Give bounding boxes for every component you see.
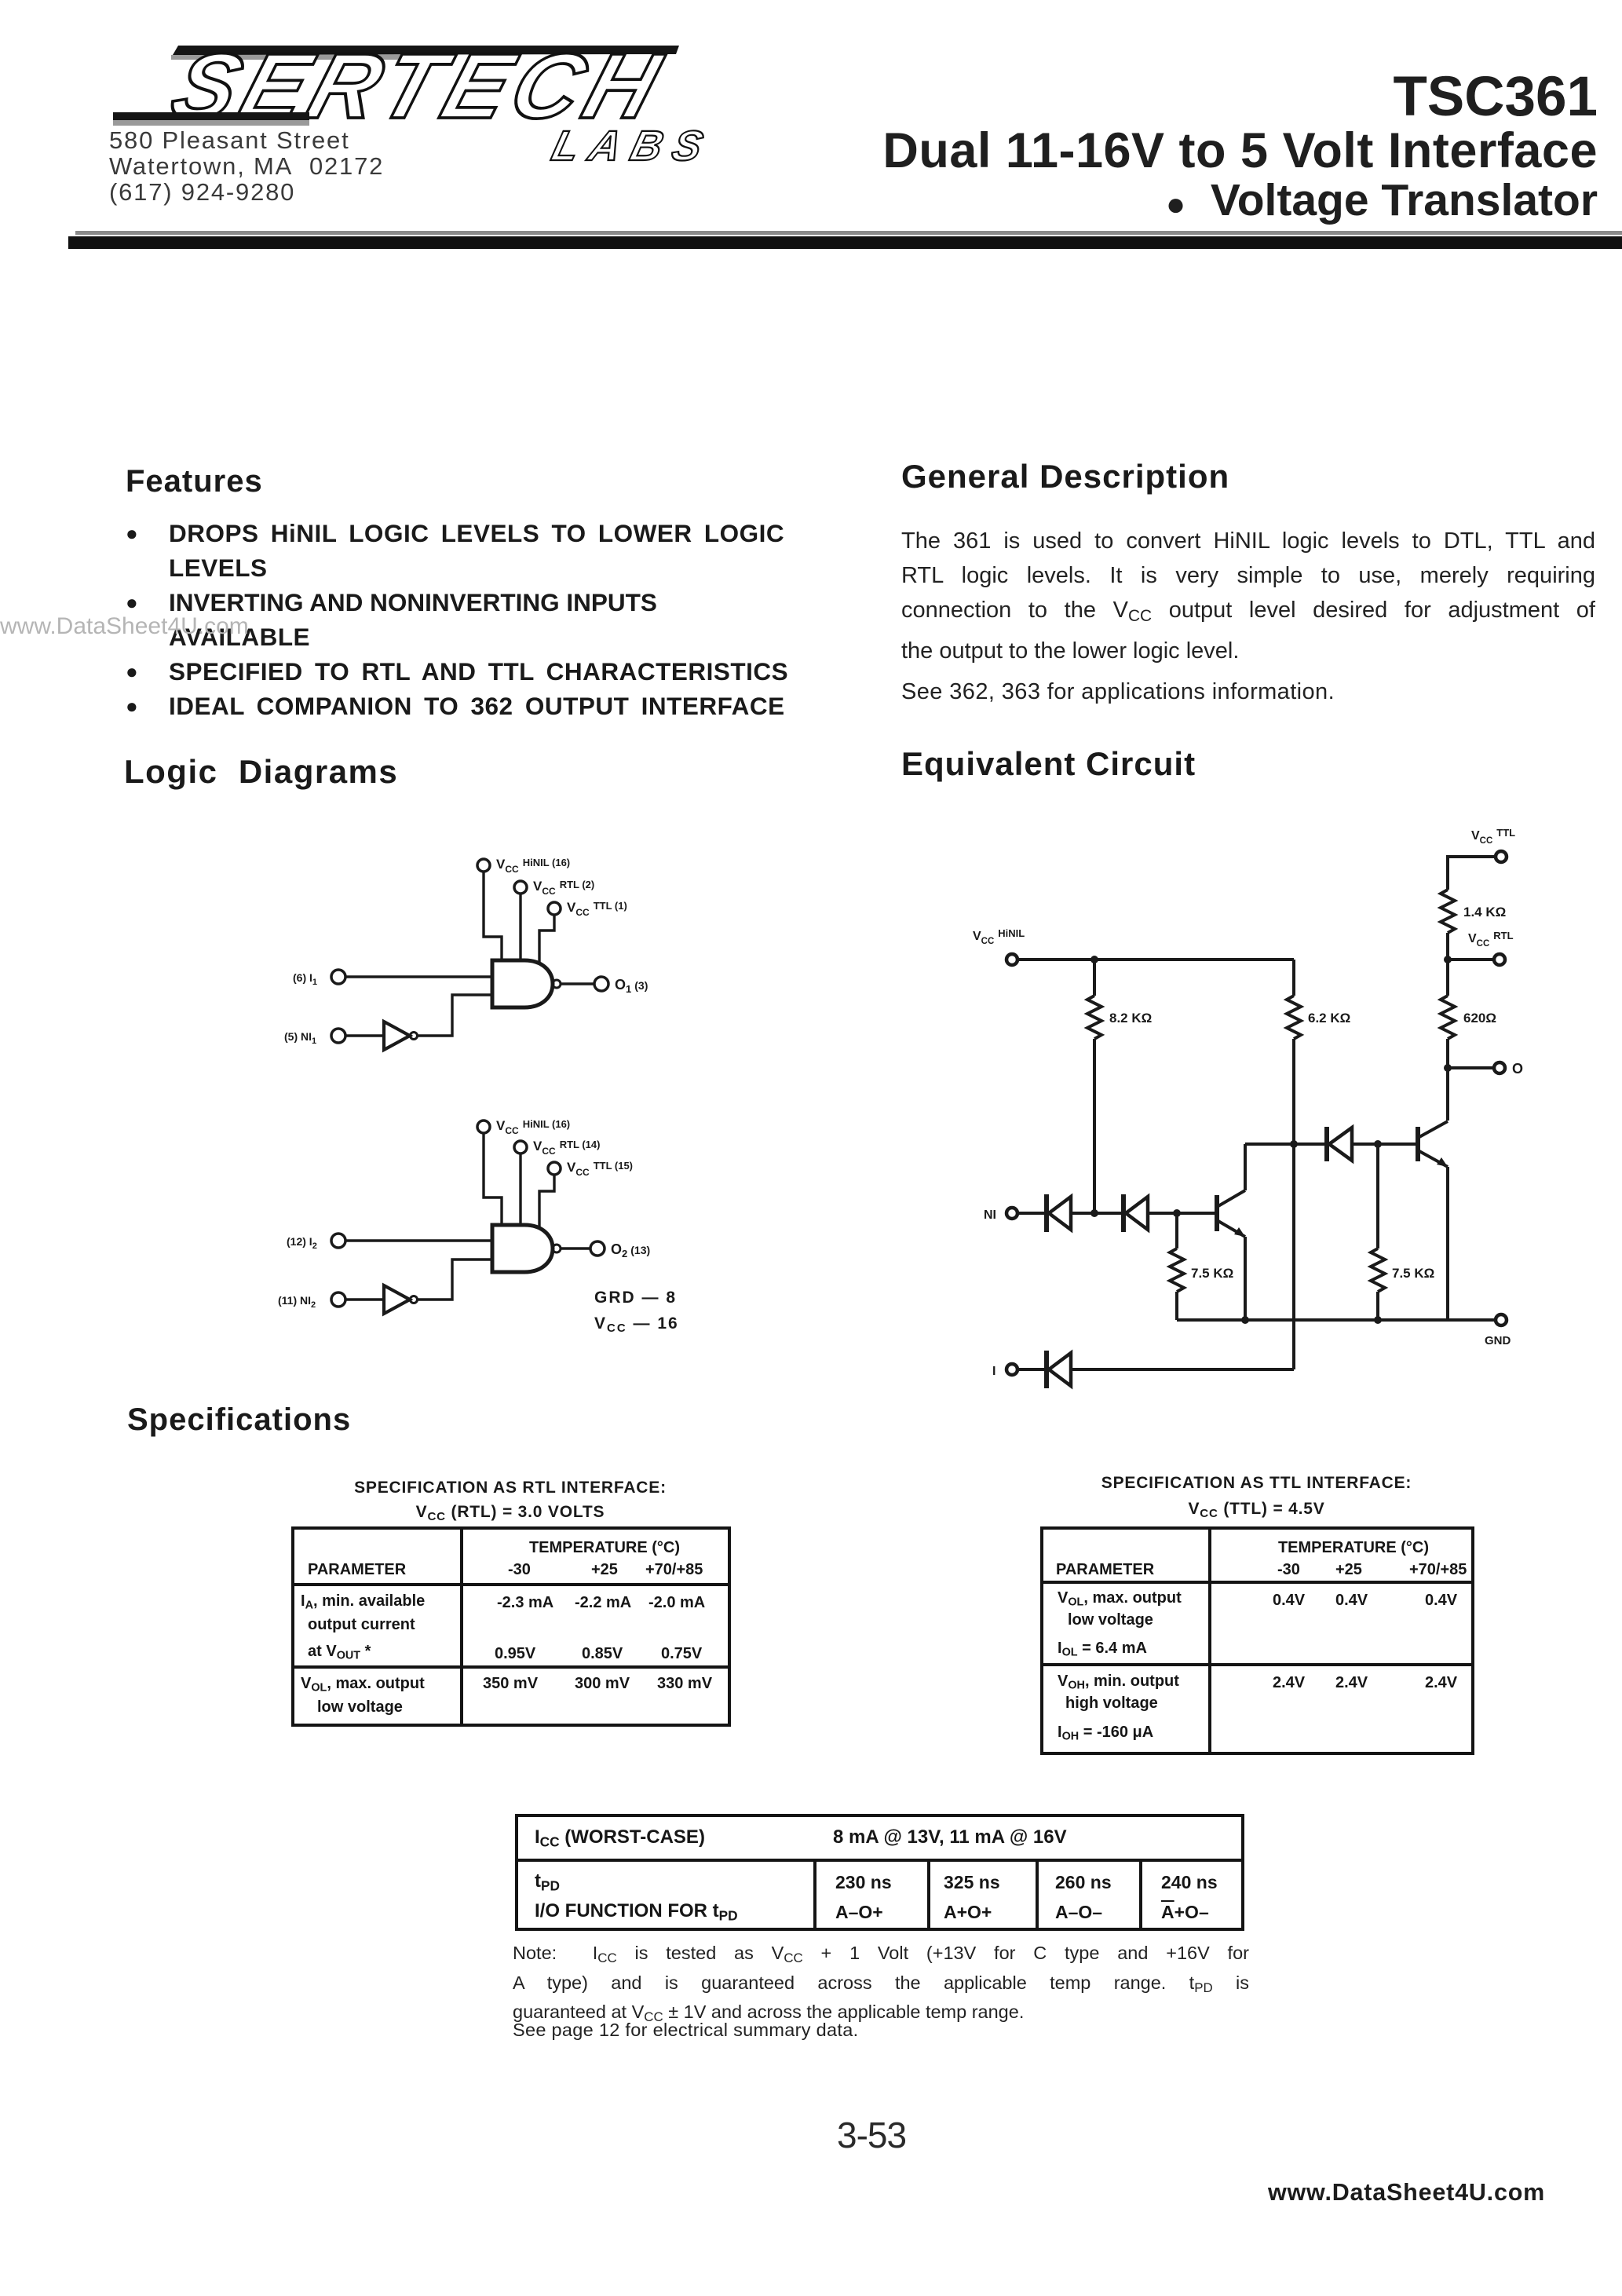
node Q1 emitter rail	[1241, 1316, 1249, 1324]
node junction HiNIL/8.2K	[1090, 956, 1098, 963]
resistor R2 620	[1441, 996, 1455, 1039]
svg-text:(6) I1: (6) I1	[293, 971, 317, 987]
wire inverter2 to gate2	[418, 1260, 492, 1300]
resistor R3 8.2K	[1087, 996, 1101, 1039]
svg-text:O2(13): O2(13)	[611, 1241, 650, 1260]
terminal Vcc RTL	[1494, 954, 1505, 965]
label GND	[1485, 1334, 1511, 1347]
wire Vcc TTL to gate2	[539, 1175, 554, 1227]
svg-text:7.5 KΩ: 7.5 KΩ	[1191, 1266, 1233, 1281]
wire O node to Q2 collector	[1446, 1068, 1449, 1121]
label 6.2 KOhm	[1308, 1011, 1350, 1026]
wire gate2 output	[561, 1247, 590, 1249]
gray watermark	[0, 613, 249, 640]
label (5) NI1	[284, 1030, 316, 1046]
svg-text:VCCTTL (1): VCCTTL (1)	[567, 900, 627, 918]
logo underline	[113, 112, 309, 120]
gate U1 AND	[492, 960, 553, 1007]
svg-text:(5) NI1: (5) NI1	[284, 1030, 316, 1046]
wire Vcc RTL to gate1	[519, 894, 521, 962]
logo underline shadow	[113, 120, 309, 126]
svg-text:6.2 KΩ: 6.2 KΩ	[1308, 1011, 1350, 1026]
terminal Vcc HiNIL pin16 (gate 2)	[477, 1121, 490, 1133]
inverter buffer gate2	[384, 1285, 418, 1314]
terminal NI	[1006, 1208, 1017, 1219]
wire R2 to O node	[1446, 1039, 1449, 1068]
wire gate1 output	[561, 982, 594, 985]
terminal input NI2 pin11	[331, 1292, 345, 1307]
wire I2 to gate2	[345, 1239, 492, 1241]
wire node A to D3	[1245, 1143, 1327, 1146]
svg-text:NI: NI	[984, 1208, 996, 1222]
logo top bar shadow	[171, 55, 407, 60]
terminal I	[1006, 1364, 1017, 1375]
thick rule under header	[75, 231, 1622, 235]
wire Vcc HiNIL rail	[1017, 958, 1294, 961]
label O2 (13)	[611, 1241, 650, 1260]
label (6) I1	[293, 971, 317, 987]
wire Vcc TTL to R1	[1448, 857, 1496, 890]
label 1.4 KOhm	[1463, 905, 1506, 919]
label O1 (3)	[615, 977, 648, 995]
wire Q2 emitter to rail	[1446, 1167, 1449, 1320]
wire R1 to RTL node	[1446, 933, 1449, 960]
label (12) I2	[287, 1235, 317, 1251]
label GRD - 8	[594, 1289, 677, 1307]
terminal O2 pin13	[590, 1241, 605, 1256]
terminal Vcc HiNIL	[1006, 954, 1017, 965]
svg-text:1.4 KΩ: 1.4 KΩ	[1463, 905, 1506, 919]
logo wordmark SERTECH	[160, 34, 677, 137]
diode D3	[1327, 1127, 1352, 1161]
label (11) NI2	[278, 1294, 316, 1310]
resistor R1 1.4K	[1441, 890, 1455, 933]
label Vcc RTL (14)	[533, 1139, 600, 1157]
terminal Vcc TTL pin1 (gate 1)	[548, 902, 561, 915]
terminal input I1 pin6	[331, 970, 345, 984]
label Vcc HiNIL (16) gate2	[496, 1118, 570, 1136]
label Vcc HiNIL (16)	[496, 857, 570, 875]
svg-text:8.2 KΩ: 8.2 KΩ	[1109, 1011, 1152, 1026]
label Vcc TTL (15)	[567, 1160, 633, 1178]
label I	[992, 1365, 995, 1378]
wire I1 to gate1	[345, 975, 492, 978]
svg-text:GND: GND	[1485, 1334, 1511, 1347]
diode D4	[1047, 1351, 1071, 1388]
wire D3 to Q2 base	[1352, 1143, 1418, 1146]
output bubble gate2	[553, 1245, 561, 1252]
terminal Vcc RTL pin14 (gate 2)	[514, 1141, 527, 1153]
resistor R5 7.5K right	[1371, 1144, 1385, 1320]
svg-text:VCCTTL: VCCTTL	[1471, 827, 1515, 846]
label NI	[984, 1208, 996, 1222]
label Vcc RTL	[1468, 930, 1514, 949]
label 8.2 KOhm	[1109, 1011, 1152, 1026]
wire Vcc HiNIL to gate2	[484, 1133, 502, 1227]
svg-text:VCCRTL (14): VCCRTL (14)	[533, 1139, 600, 1157]
transistor Q2	[1418, 1121, 1448, 1167]
wire inverter1 to gate1	[418, 995, 492, 1036]
label Vcc TTL (1)	[567, 900, 627, 918]
wire Q1 emitter to rail	[1244, 1237, 1247, 1320]
wire I to D4	[1017, 1368, 1047, 1371]
label O	[1512, 1061, 1523, 1077]
svg-text:O: O	[1512, 1061, 1523, 1077]
wire NI2 to inverter2	[345, 1298, 384, 1300]
label 7.5 KOhm right	[1392, 1266, 1434, 1281]
svg-text:VCCHiNIL (16): VCCHiNIL (16)	[496, 1118, 570, 1136]
bottom watermark	[1268, 2179, 1545, 2206]
wire Vcc TTL to gate1	[539, 915, 554, 962]
transistor Q1	[1217, 1190, 1245, 1237]
wire 6.2K to node A to I line	[1292, 1039, 1295, 1369]
diode D2	[1123, 1194, 1148, 1232]
terminal O	[1494, 1062, 1505, 1073]
wire Vcc HiNIL to gate1	[484, 872, 502, 962]
svg-text:GRD — 8: GRD — 8	[594, 1289, 677, 1307]
label Vcc - 16	[594, 1314, 679, 1335]
wire D1 to D2	[1071, 1212, 1123, 1215]
terminal input I2 pin12	[331, 1234, 345, 1248]
svg-text:(12) I2: (12) I2	[287, 1235, 317, 1251]
svg-text:VCC — 16: VCC — 16	[594, 1314, 679, 1335]
wire RTL node to R2	[1446, 960, 1449, 996]
node junction 8.2K bottom	[1090, 1209, 1098, 1217]
logo LABS	[547, 122, 718, 170]
svg-text:7.5 KΩ: 7.5 KΩ	[1392, 1266, 1434, 1281]
wire D2 to Q1 base	[1148, 1212, 1217, 1215]
terminal Vcc TTL pin15 (gate 2)	[548, 1162, 561, 1175]
svg-text:VCCHiNIL: VCCHiNIL	[973, 927, 1025, 946]
output bubble gate1	[553, 980, 561, 988]
svg-text:O1(3): O1(3)	[615, 977, 648, 995]
label 7.5 KOhm left	[1191, 1266, 1233, 1281]
node junction 7.5K no2	[1374, 1140, 1382, 1148]
resistor R4 7.5K left	[1170, 1213, 1184, 1320]
inverter buffer gate1	[384, 1022, 418, 1050]
wire 8.2K vertical	[1093, 960, 1096, 1213]
node junction 7.5K no1	[1173, 1209, 1181, 1217]
terminal O1 pin3	[594, 977, 608, 991]
terminal input NI1 pin5	[331, 1029, 345, 1043]
node Vcc RTL junction	[1444, 956, 1452, 963]
svg-text:I: I	[992, 1365, 995, 1378]
svg-text:VCCRTL: VCCRTL	[1468, 930, 1514, 949]
node R5 rail	[1374, 1316, 1382, 1324]
wire node to O terminal	[1448, 1066, 1494, 1069]
svg-text:(11) NI2: (11) NI2	[278, 1294, 316, 1310]
svg-text:620Ω: 620Ω	[1463, 1011, 1496, 1026]
page number	[837, 2114, 906, 2156]
logo top bar	[173, 46, 679, 55]
label 620 Ohm	[1463, 1011, 1496, 1026]
svg-text:VCCTTL (15): VCCTTL (15)	[567, 1160, 633, 1178]
svg-text:VCCRTL (2): VCCRTL (2)	[533, 879, 594, 897]
resistor R6 6.2K	[1287, 996, 1301, 1039]
wire NI1 to inverter1	[345, 1034, 384, 1036]
label Vcc TTL	[1471, 827, 1515, 846]
wire Q1 collector to node A	[1244, 1144, 1247, 1190]
terminal GND	[1496, 1314, 1507, 1325]
diode D1	[1047, 1194, 1071, 1232]
terminal Vcc HiNIL pin16 (gate 1)	[477, 859, 490, 872]
terminal Vcc TTL	[1496, 851, 1507, 862]
wire D4 to node A vertical	[1071, 1368, 1294, 1371]
node output O junction	[1444, 1064, 1452, 1072]
wire node to Vcc RTL terminal	[1448, 958, 1494, 961]
node A junction (6.2K bottom)	[1290, 1140, 1298, 1148]
label Vcc HiNIL	[973, 927, 1025, 946]
gate U2 AND	[492, 1225, 553, 1272]
svg-text:VCCHiNIL (16): VCCHiNIL (16)	[496, 857, 570, 875]
wire Vcc RTL to gate2	[519, 1153, 521, 1227]
wire NI to D1	[1017, 1212, 1047, 1215]
wire ground rail	[1177, 1318, 1496, 1322]
terminal Vcc RTL pin2 (gate 1)	[514, 881, 527, 894]
wire 6.2K vertical top	[1292, 960, 1295, 996]
label Vcc RTL (2)	[533, 879, 594, 897]
